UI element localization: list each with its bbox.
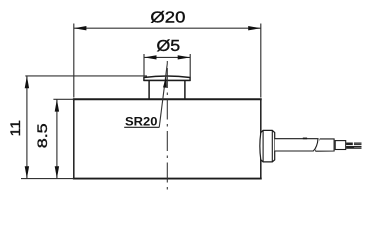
arrow left of Ø5 <box>144 55 157 59</box>
arrow top of 11 <box>25 76 29 88</box>
body right edge <box>260 98 262 179</box>
body outline (main cylinder side view) <box>74 99 261 178</box>
tick on tube top <box>303 137 307 139</box>
extension line bottom (shared) <box>21 178 74 180</box>
dimension 8.5 (body height) <box>53 99 73 178</box>
extension line right <box>260 24 262 98</box>
dimension line <box>26 76 28 179</box>
arrow right of Ø20 <box>248 26 261 30</box>
leader arrowhead at dome surface <box>163 76 167 88</box>
body top edge <box>73 98 262 100</box>
break line 2 <box>315 139 320 151</box>
arrow left of Ø20 <box>74 26 87 30</box>
body bottom edge <box>73 178 262 180</box>
cap flange with spherical top SR20 <box>144 76 190 80</box>
svg-text:SR20: SR20 <box>125 114 158 128</box>
arrow right of Ø5 <box>178 55 191 59</box>
underline of SR20 <box>124 126 159 128</box>
body left edge <box>73 98 75 179</box>
dimension line <box>56 99 58 178</box>
svg-text:Ø5: Ø5 <box>157 38 181 55</box>
dimension 11 (overall height) <box>21 76 147 179</box>
extension line top (cap top) <box>25 75 147 77</box>
extension line top (body top) <box>53 98 73 100</box>
dimension Ø5 <box>144 54 190 77</box>
svg-text:8.5: 8.5 <box>35 123 50 148</box>
svg-text:Ø20: Ø20 <box>150 10 185 27</box>
dimension Ø20 <box>74 24 261 98</box>
dimension line <box>74 27 261 29</box>
cable tube segment 2 <box>315 139 334 151</box>
cap stem <box>149 80 185 99</box>
cap flange bottom line <box>144 79 190 81</box>
svg-text:11: 11 <box>8 120 23 137</box>
arrow top of 8.5 <box>55 99 59 111</box>
leader line SR20 <box>159 64 167 128</box>
centerline (vertical axis of part) <box>166 61 168 194</box>
arrow bottom of 11 <box>25 166 29 178</box>
cable sleeve <box>335 141 346 150</box>
hex nut (cable gland) <box>260 130 362 162</box>
cable tube segment 1 (with break cut) <box>275 139 318 151</box>
cable end (wire strands) <box>346 142 361 149</box>
extension line left <box>73 24 75 98</box>
arrow bottom of 8.5 <box>55 166 59 178</box>
